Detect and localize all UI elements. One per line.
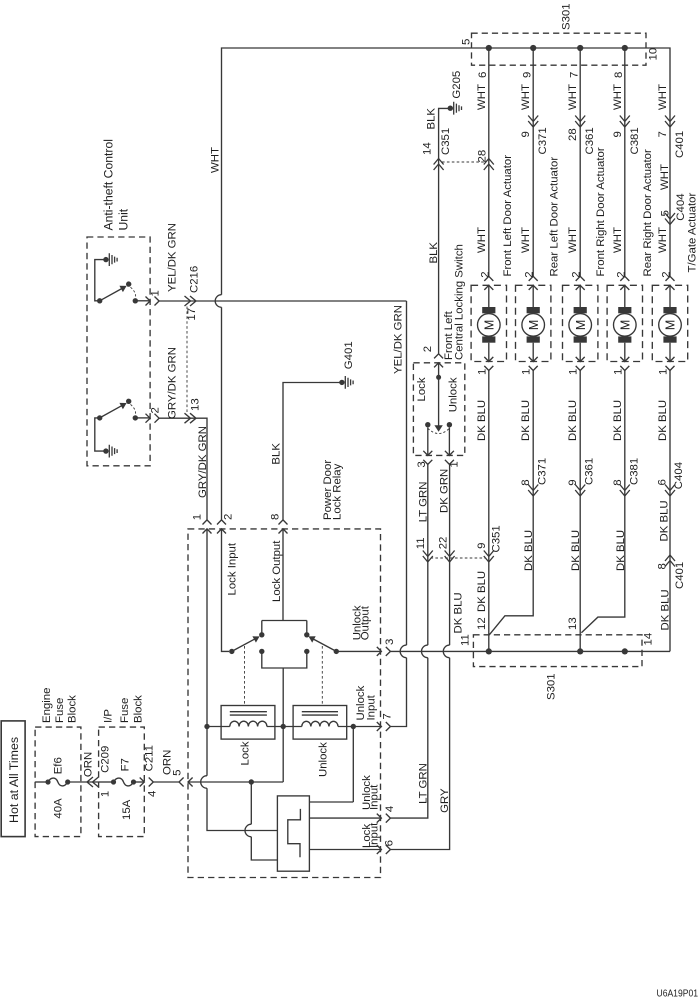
svg-text:M: M [619,320,633,330]
svg-text:1: 1 [150,290,162,296]
wire IC to relay pin 6 (internal) [309,849,381,851]
relay switch arm left [232,638,257,651]
svg-text:1: 1 [521,369,533,375]
svg-text:WHT: WHT [567,227,579,253]
motor M1 brush bar bottom [482,336,495,342]
motor M4 circle [614,314,637,337]
svg-text:F7: F7 [120,758,132,771]
node relay upper contact dot left [259,632,264,637]
node relay power junction B [249,779,254,784]
svg-text:2: 2 [524,271,536,277]
svg-text:17: 17 [186,308,198,321]
svg-text:2: 2 [479,271,491,277]
wire GRY/DK GRN (anti-theft pin 2 through C216-13 to relay pin 1) [159,418,207,520]
svg-text:WHT: WHT [210,147,222,173]
wire relay coil bus [207,726,353,728]
relay contact frame top bar [262,621,307,635]
door lock actuator box M2 (Rear Left Door Actuator) dashed outline [516,285,551,361]
connector C216 pin 17 chevrons [185,296,197,306]
svg-text:Central Locking Switch: Central Locking Switch [454,244,466,360]
svg-text:5: 5 [461,39,473,45]
svg-text:DK BLU: DK BLU [615,530,627,571]
svg-text:C401: C401 [674,562,686,589]
switch dashed link (upper) [131,287,136,297]
svg-text:14: 14 [422,142,434,155]
motor M3 brush bar bottom [574,336,587,342]
svg-text:M: M [574,320,588,330]
svg-text:2: 2 [422,346,434,352]
pin 2 connector pair (anti-theft) [146,414,160,423]
svg-text:14: 14 [643,633,655,646]
wire YEL/DK GRN riser (down to relay pin 7) [390,301,406,727]
svg-text:Rear Right Door Actuator: Rear Right Door Actuator [642,149,654,276]
svg-text:GRY/DK GRN: GRY/DK GRN [197,426,209,498]
svg-text:DK GRN: DK GRN [439,469,451,513]
wire hop (YEL/DK GRN riser over DK BLU wire) [400,645,406,658]
svg-text:22: 22 [437,537,449,550]
svg-text:12: 12 [476,617,488,630]
pin 2 connector pair at actuator 3 [576,276,585,290]
connector C361 pin 9 chevrons (lower) [575,485,585,497]
node relay coil junction A (pin 1) [204,724,209,729]
wire relay power riser (B up to C) [282,727,284,783]
wire relay pin 7 internal [353,726,381,728]
wire hop (power drop over pin1-IC wire) [245,824,251,837]
node splice dot (lower right) [622,648,628,654]
wire ORN (C211 to relay pin 5) [153,781,179,783]
connector C216 pin 13 chevrons [185,413,197,423]
svg-text:WHT: WHT [659,164,671,190]
motor M2 brush bar top [527,307,540,313]
svg-text:15A: 15A [121,799,133,820]
wire WHT branch 1 (S301 to front left actuator) [488,48,490,276]
wire relay power drop (B down to IC) [251,782,277,860]
wire actuator 4 internal bottom [624,343,626,362]
svg-text:2: 2 [571,271,583,277]
svg-text:Unlock: Unlock [317,742,329,777]
svg-text:Front Right Door Actuator: Front Right Door Actuator [595,147,607,276]
wire WHT branch 4 (S301 to actuator) [624,48,626,276]
relay unlock coil core lines [302,712,338,715]
relay control IC step symbol [288,809,301,857]
svg-text:2: 2 [661,271,673,277]
wire IC to relay pin 4 (internal) [309,817,381,819]
pin 6 connector pair (relay) [377,845,391,854]
wire dashed mechanical link (unlock coil) [321,646,323,706]
svg-text:Block: Block [67,695,79,723]
svg-text:G205: G205 [451,71,463,99]
node splice dot S301-8 (rear right branch) [622,45,628,51]
svg-text:DK BLU: DK BLU [612,400,624,441]
switch throw dot (lower) [126,399,131,404]
relay unlock coil box [293,706,347,740]
pin 2 connector pair at actuator 1 [484,276,493,290]
wire relay power feed (pin 5 to junction B) [188,781,283,783]
wire dashed link C351 pins 14-28 [442,161,485,163]
svg-text:WHT: WHT [657,227,669,253]
motor M3 circle [569,314,592,337]
wire dashed link C351 pins 11-22-9 [431,557,487,559]
svg-text:9: 9 [612,131,624,137]
pin 2 connector pair (relay) [217,520,226,534]
svg-text:8: 8 [270,514,282,520]
wire LT GRN (locking switch pin 3 to relay pin 4) [390,464,427,818]
svg-text:Unit: Unit [116,208,130,230]
switch dashed arc (locking switch) [428,428,450,433]
svg-text:C381: C381 [629,127,641,154]
motor M5 brush bar top [663,307,676,313]
svg-text:U6A19P01: U6A19P01 [657,988,699,998]
svg-text:1: 1 [568,369,580,375]
svg-text:Lock: Lock [416,377,428,401]
engine fuse block dashed box [35,727,81,837]
wire actuator 1 internal top [488,285,490,307]
svg-text:DK BLU: DK BLU [570,530,582,571]
svg-text:Engine: Engine [41,688,53,723]
connector C371 pin 8 chevrons (lower) [528,485,538,497]
motor M2 brush bar bottom [527,336,540,342]
svg-text:M: M [664,320,678,330]
relay switch arm right [312,638,337,651]
front left central locking switch dashed box [413,363,464,456]
ground G205 symbol [448,106,453,111]
svg-text:Input: Input [368,822,380,848]
connector C361 pin 28 chevrons (branch 3) [575,116,585,128]
svg-text:DK BLU: DK BLU [476,400,488,441]
connector C381 pin 9 chevrons (branch 4) [620,116,630,128]
svg-text:2: 2 [615,271,627,277]
svg-text:Anti-theft Control: Anti-theft Control [102,139,116,230]
svg-text:Fuse: Fuse [54,698,66,723]
svg-text:2: 2 [150,407,162,413]
svg-text:DK BLU: DK BLU [659,500,671,541]
pin 4 connector pair (relay) [377,814,391,823]
node splice dot S301-7 (front right branch) [577,45,583,51]
wire anti-theft pin 2 (inside) [135,417,150,419]
node splice dot S301-6 (front left branch) [486,45,492,51]
svg-text:ORN: ORN [162,750,174,775]
node relay coil junction C (center) [281,724,286,729]
connector C401 pin 7 chevrons (branch 5) [665,116,675,128]
pin 1 connector pair at actuator 2 [529,357,538,371]
svg-text:YEL/DK GRN: YEL/DK GRN [167,223,179,292]
power door lock relay dashed box [188,529,381,878]
svg-text:C404: C404 [673,462,685,489]
switch pivot dot (locking switch) [436,375,441,380]
svg-text:Input: Input [368,784,380,810]
svg-text:G401: G401 [343,341,355,369]
wire actuator 5 internal bottom [669,343,671,362]
ground symbol (anti-theft lower switch) [103,448,108,453]
svg-text:Rear Left Door Actuator: Rear Left Door Actuator [549,157,561,277]
svg-text:C211: C211 [144,745,156,771]
svg-text:DK BLU: DK BLU [567,400,579,441]
connector C351 pin 28 chevrons (branch 1) [484,159,494,171]
node relay lower contact dot left [259,649,264,654]
svg-text:4: 4 [384,806,396,812]
svg-text:28: 28 [476,150,488,163]
pin 4 connector pair (C211 at i/p block edge) [140,778,154,787]
ground symbol (anti-theft upper switch) [103,257,108,262]
wire actuator 3 internal bottom [579,343,581,362]
svg-text:5: 5 [660,210,672,216]
pin 1 connector pair (anti-theft) [146,297,160,306]
svg-text:9: 9 [476,543,488,549]
svg-text:3: 3 [384,639,396,645]
switch contact dot (upper common) [97,298,102,303]
svg-text:C404: C404 [675,193,687,220]
svg-text:DK BLU: DK BLU [523,530,535,571]
wire actuator 2 internal top [532,285,534,307]
wire IC to unlock coil [309,727,353,803]
svg-text:DK BLU: DK BLU [520,400,532,441]
pin 5 connector pair (relay) [179,778,193,787]
switch contact dot unlock side [447,422,452,427]
pin 3 connector pair (relay) [377,647,391,656]
svg-text:Block: Block [132,695,144,723]
wire relay pin 2 internal [222,529,230,652]
fuse Ef6 40A [45,779,50,784]
wire DK BLU branch 5 (T/gate actuator down to S301 pin 14) [669,371,671,652]
svg-text:GRY/DK GRN: GRY/DK GRN [167,347,179,419]
hot at all times box [1,721,25,837]
node splice dot S301-9 (rear left branch) [530,45,536,51]
svg-text:WHT: WHT [476,84,488,110]
wire actuator 1 internal bottom [488,343,490,362]
svg-text:8: 8 [613,72,625,78]
svg-text:WHT: WHT [657,84,669,110]
svg-text:I/P: I/P [102,709,114,723]
pin 1 connector pair at actuator 5 [666,357,675,371]
wire GRY (locking switch pin 1 to relay pin 6) [390,464,449,849]
wire anti-theft upper switch to ground [95,260,106,301]
svg-text:Front Left Door Actuator: Front Left Door Actuator [502,155,514,277]
wire actuator 5 internal top [669,285,671,307]
svg-text:Unlock: Unlock [448,377,460,412]
svg-text:Lock Output: Lock Output [271,540,283,602]
svg-text:Input: Input [365,694,377,720]
wire lock contact down [427,428,429,456]
door lock actuator box M4 (Rear Right Door Actuator) dashed outline [607,285,642,361]
wire anti-theft lower switch to ground [95,418,106,451]
pin 1 connector pair at actuator 1 [484,357,493,371]
svg-text:WHT: WHT [476,227,488,253]
relay unlock coil winding [302,721,338,726]
svg-text:11: 11 [460,634,472,646]
svg-text:Lock Input: Lock Input [226,542,238,595]
door lock actuator box M5 (T/Gate Actuator) dashed outline [652,285,687,361]
node relay upper contact dot right [304,632,309,637]
wire power feed (engine block to C209) [68,781,99,783]
wire actuator 3 internal top [579,285,581,307]
switch contact dot lock side [425,422,430,427]
switch output dot (lower) [133,415,138,420]
pin 1 connector pair (locking switch) [445,451,454,465]
svg-text:M: M [527,320,541,330]
svg-text:4: 4 [147,791,159,797]
svg-text:28: 28 [567,128,579,141]
connector C351 pin 9 chevrons [484,551,494,563]
wire dashed link C216 pins 17-13 [186,307,188,414]
relay lock coil core lines [230,712,267,715]
svg-text:WHT: WHT [520,227,532,253]
svg-text:2: 2 [222,514,234,520]
svg-text:DK BLU: DK BLU [657,400,669,441]
wire WHT bus (up, across top, down right side to T/Gate branch) [222,48,671,295]
node relay left common dot [229,649,234,654]
wire relay pin 1 internal (down left side) [207,529,277,831]
wire DK BLU branch 3 (actuator to S301 lower) [579,371,581,652]
wire WHT bus (relay Lock Input pin 2 riser, lower part) [221,307,223,520]
svg-text:S301: S301 [561,3,573,30]
pin 3 connector pair (locking switch) [423,451,432,465]
pin 1 connector pair at actuator 3 [576,357,585,371]
ground G401 symbol [339,380,344,385]
svg-text:1: 1 [476,369,488,375]
wire DK BLU branch 2 (actuator to S301 lower, jogs left) [489,371,533,635]
switch throw dot (upper) [126,281,131,286]
motor M4 brush bar bottom [618,336,631,342]
motor M1 circle [478,314,501,337]
wire relay pin 8 internal [282,529,284,621]
svg-text:8: 8 [612,479,624,485]
motor M4 brush bar top [618,307,631,313]
wire hop (pin 1 wire over power feed) [201,776,207,789]
wire DK BLU (relay Unlock Output pin 3 to S301 lower pin 11 and 14) [390,650,670,652]
connector C209 pin 1 chevrons [87,777,99,787]
switch contact dot (lower common) [97,415,102,420]
svg-text:WHT: WHT [567,84,579,110]
svg-text:11: 11 [415,537,427,549]
svg-text:DK BLU: DK BLU [453,592,465,633]
pin 2 connector pair at actuator 2 [529,276,538,290]
motor M5 brush bar bottom [663,336,676,342]
svg-text:S301: S301 [546,673,558,700]
svg-text:ORN: ORN [82,752,94,777]
svg-text:40A: 40A [52,798,64,819]
wire hop (WHT bus over YEL/DK GRN wire) [215,295,221,308]
connector C351 pin 22 chevrons [445,551,455,563]
pin 2 connector pair at actuator 5 [666,276,675,290]
svg-text:9: 9 [567,479,579,485]
svg-text:7: 7 [568,72,580,78]
pin 7 connector pair (relay) [377,722,391,731]
wire DK BLU branch 1 (actuator to S301 lower) [488,371,490,652]
svg-text:DK BLU: DK BLU [660,589,672,630]
relay control IC box [277,796,309,871]
node splice dot S301-12 [486,648,492,654]
svg-text:1: 1 [612,369,624,375]
i/p fuse block dashed box [99,727,145,837]
svg-text:8: 8 [520,479,532,485]
switch arm (upper) [100,288,124,301]
svg-text:8: 8 [656,563,668,569]
motor M3 brush bar top [574,307,587,313]
connector C381 pin 8 chevrons (lower) [620,485,630,497]
connector C404 pin 5 chevrons (branch 5) [665,213,675,225]
svg-text:DK BLU: DK BLU [476,571,488,612]
svg-text:C216: C216 [189,266,201,293]
svg-text:9: 9 [521,72,533,78]
wire actuator 2 internal bottom [532,343,534,362]
door lock actuator box M1 (Front Left Door Actuator) dashed outline [471,285,506,361]
svg-text:WHT: WHT [520,84,532,110]
wire anti-theft pin 1 (inside) [135,300,150,302]
relay lock coil box [221,706,275,740]
wire power feed (F7 to C211) [134,781,145,783]
pin 1 connector pair (relay) [203,520,212,534]
svg-text:LT GRN: LT GRN [417,482,429,523]
fuse F7 15A [111,779,116,784]
switch dashed link (lower) [131,404,136,414]
svg-text:7: 7 [382,713,394,719]
svg-text:1: 1 [100,791,112,797]
svg-text:Lock: Lock [240,741,252,765]
svg-text:BLK: BLK [271,443,283,465]
svg-text:LT GRN: LT GRN [417,763,429,804]
wire hop (GRY over DK BLU wire) [443,645,449,658]
svg-text:C381: C381 [628,458,640,485]
splice pack S301 (lower) dashed box [473,635,642,667]
svg-text:Ef6: Ef6 [52,757,64,774]
switch output dot (upper) [133,298,138,303]
svg-text:C351: C351 [491,525,503,552]
anti-theft control unit dashed box [87,237,150,466]
pin 2 connector pair at actuator 4 [620,276,629,290]
svg-text:C371: C371 [537,127,549,154]
switch arm (lower) [100,405,124,418]
svg-text:Output: Output [359,605,371,640]
wire unlock contact down [448,428,450,456]
wire BLK (relay pin 8 to G401) [283,383,342,520]
wire actuator 4 internal top [624,285,626,307]
svg-text:1: 1 [658,369,670,375]
svg-text:7: 7 [657,131,669,137]
wire BLK (central locking switch pin 2 to G205) [439,108,451,353]
svg-text:6: 6 [656,479,668,485]
svg-text:YEL/DK GRN: YEL/DK GRN [393,305,405,374]
node relay right common dot [334,649,339,654]
wire locking switch common [438,363,440,428]
svg-text:WHT: WHT [612,84,624,110]
svg-text:3: 3 [416,461,428,467]
svg-text:13: 13 [190,398,202,411]
svg-text:GRY: GRY [439,788,451,813]
svg-text:Fuse: Fuse [119,698,131,723]
svg-text:C351: C351 [440,128,452,155]
pin 2 connector pair (locking switch) [434,354,443,368]
connector C351 pin 11 chevrons [423,551,433,563]
connector C401 pin 8 chevrons [665,555,675,567]
wire DK BLU branch 4 (actuator to S301 lower, jogs left) [581,371,624,633]
door lock actuator box M3 (Front Right Door Actuator) dashed outline [563,285,598,361]
pin 8 connector pair (relay) [279,520,288,534]
svg-text:C401: C401 [674,131,686,158]
node relay lower contact dot right [304,649,309,654]
svg-text:1: 1 [191,514,203,520]
svg-text:BLK: BLK [426,108,438,130]
connector C404 pin 6 chevrons [665,485,675,497]
svg-text:13: 13 [567,617,579,630]
motor M5 circle [659,314,682,337]
relay lock coil winding [230,721,267,726]
wire dashed mechanical link (lock coil) [244,646,246,706]
relay contact frame bottom bar [262,651,307,726]
connector C371 pin 9 chevrons (branch 2) [528,116,538,128]
motor M1 brush bar top [482,307,495,313]
pin 1 connector pair at actuator 4 [620,357,629,371]
svg-text:9: 9 [520,131,532,137]
